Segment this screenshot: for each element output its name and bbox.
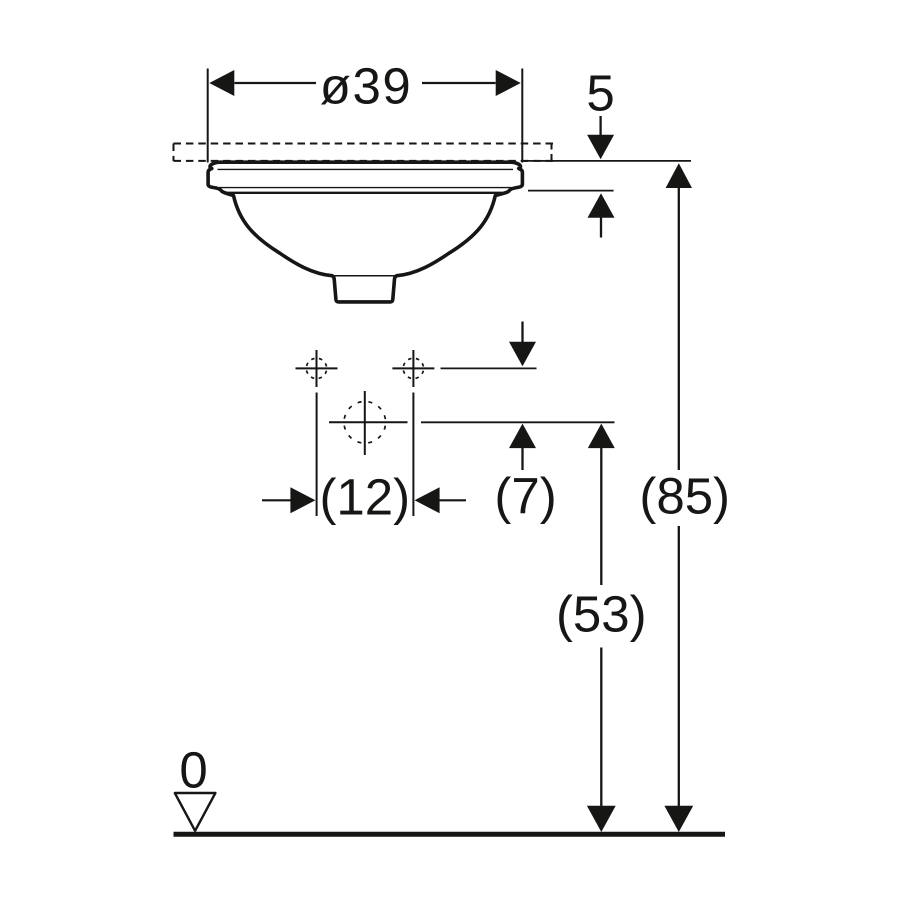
extension line right (ø39) (521, 69, 523, 163)
rim inner line 2 (219, 187, 512, 189)
washbasin silhouette (208, 162, 522, 302)
faucet hole left (296, 350, 338, 387)
rim inner line 1 (218, 168, 514, 170)
datum triangle (175, 793, 216, 831)
arrow up to drain level line (7) (509, 424, 536, 470)
ground baseline (174, 832, 726, 837)
svg-text:(53): (53) (556, 586, 647, 643)
drain hole symbol (329, 391, 408, 455)
rim bottom edge (228, 192, 503, 194)
dimension line (85) (639, 163, 730, 832)
rim underside level line (right) (528, 190, 614, 192)
svg-text:5: 5 (586, 65, 614, 122)
dimension (12) (262, 393, 466, 526)
arrow down to faucet hole line (509, 322, 536, 367)
dimension 5 (586, 65, 614, 160)
svg-text:(7): (7) (494, 468, 556, 525)
dimension line (53) (556, 424, 647, 832)
countertop top line (right of basin) (524, 160, 691, 162)
drain level line (421, 421, 615, 423)
svg-text:(85): (85) (639, 468, 730, 525)
faucet hole right (392, 350, 434, 387)
dimension ø39 (209, 58, 520, 115)
countertop dashed outline (174, 144, 555, 162)
arrow up to rim underside line (588, 193, 615, 237)
svg-text:(12): (12) (319, 469, 410, 526)
drain top edge (332, 275, 397, 277)
svg-text:ø39: ø39 (320, 58, 412, 115)
extension line left (ø39) (207, 69, 209, 163)
svg-text:0: 0 (179, 742, 207, 799)
faucet hole level line (441, 367, 537, 369)
